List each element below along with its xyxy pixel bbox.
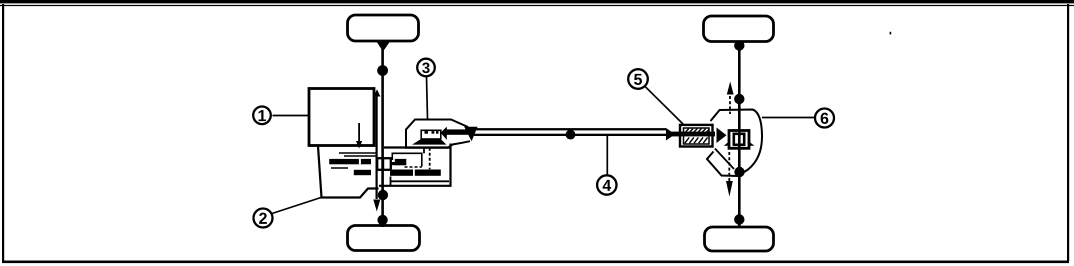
upper shaft thin line a [339,152,376,154]
leader line 4 [606,136,608,175]
leader line 6 [762,117,815,119]
frame top thin line [0,5,1074,6]
transfer case left arrow [441,127,447,140]
front axle main shaft [381,41,384,227]
engine internal line [358,123,360,142]
transfer case shaft bar [447,129,469,134]
center synchro outer box [377,158,391,170]
gearbox inner chamber line [391,180,449,182]
engine internal down arrowhead [356,141,362,149]
gear bar A [329,159,371,164]
frame right border [1067,4,1069,261]
coupling inner hatched box [684,128,710,144]
upper shaft thin line b [344,155,376,157]
diff gear outer box [729,131,749,149]
callout circle 6 [815,109,834,128]
diff left foot [724,142,729,146]
leader line 2 [272,198,321,214]
transfer case dashed link [429,148,431,170]
propeller shaft top line [476,128,667,130]
clutch teeth [425,131,429,134]
gear bar D [390,170,413,176]
rear flow dashed line lower [728,152,730,181]
frame bottom border [2,261,1069,264]
coupling shaft bar overlay [678,132,715,137]
leader line 5 [645,86,683,124]
front flow line [376,93,378,199]
front flow line down arrowhead [373,200,380,212]
callout circle 1 [253,107,271,125]
transfer case outline [406,120,470,148]
coupling right arrowhead [717,128,727,144]
callout circle 5 [628,69,648,89]
coupling shaft bar [670,132,682,137]
clutch outline dashed link [405,166,422,168]
viscous coupling outer box [680,125,713,147]
propshaft right arrowhead [666,128,675,141]
engine block [309,89,374,146]
gear bar A notch [359,159,361,164]
rear flow down arrowhead [726,181,733,197]
rear flow dashed line upper [729,96,731,114]
propeller shaft dot [566,130,576,140]
transfer case clutch rect [421,130,441,139]
gearbox housing bottom right [379,144,451,186]
wheel rear-right bottom [705,227,774,251]
front axle top arrowhead [377,42,391,52]
clutch outline L-path [392,153,422,166]
front axle dot bottom [377,215,387,225]
callout circle 4 [597,175,616,194]
transfer case link line [423,148,425,154]
diff gear inner box [734,134,744,145]
wheel rear-right top [704,16,774,42]
gearbox housing divider [390,177,392,186]
transfer case bottom line [384,146,451,148]
front axle dot lower [378,190,388,200]
rear flow up arrowhead [727,82,734,95]
rear axle dot 1 [734,40,744,50]
gearbox housing outline [318,146,379,198]
gear bar E [415,170,441,176]
rear axle dot 4 [734,214,744,224]
frame top thick border [0,0,1074,3]
gear link tick [391,162,396,165]
diff housing inner diagonal [715,149,734,170]
transfer case black gear trapezoid [412,139,447,145]
front axle dot upper [377,65,388,76]
wheel front-left bottom [348,226,420,251]
wheel front-left top [348,15,419,41]
diff right foot [749,142,755,146]
rear axle dot 3 [734,167,744,177]
center synchro axle pass-through [381,158,384,170]
propeller shaft bottom line [474,134,666,136]
rear axle line [738,41,741,227]
rear axle dot 2 [734,94,744,104]
lower shaft thin line [331,167,348,169]
frame left border [2,4,4,262]
rear diff housing outline [707,110,762,177]
front flow line up arrowhead [374,89,381,96]
leader line 1 [273,115,310,117]
gear bar C [354,170,371,175]
callout circle 3 [417,59,435,77]
speck artifact [890,32,892,35]
gear bar B [395,159,407,165]
callout circle 2 [254,209,273,228]
diff axle through line [738,131,741,149]
junction down arrowhead [464,127,477,142]
leader line 3 [427,77,428,120]
